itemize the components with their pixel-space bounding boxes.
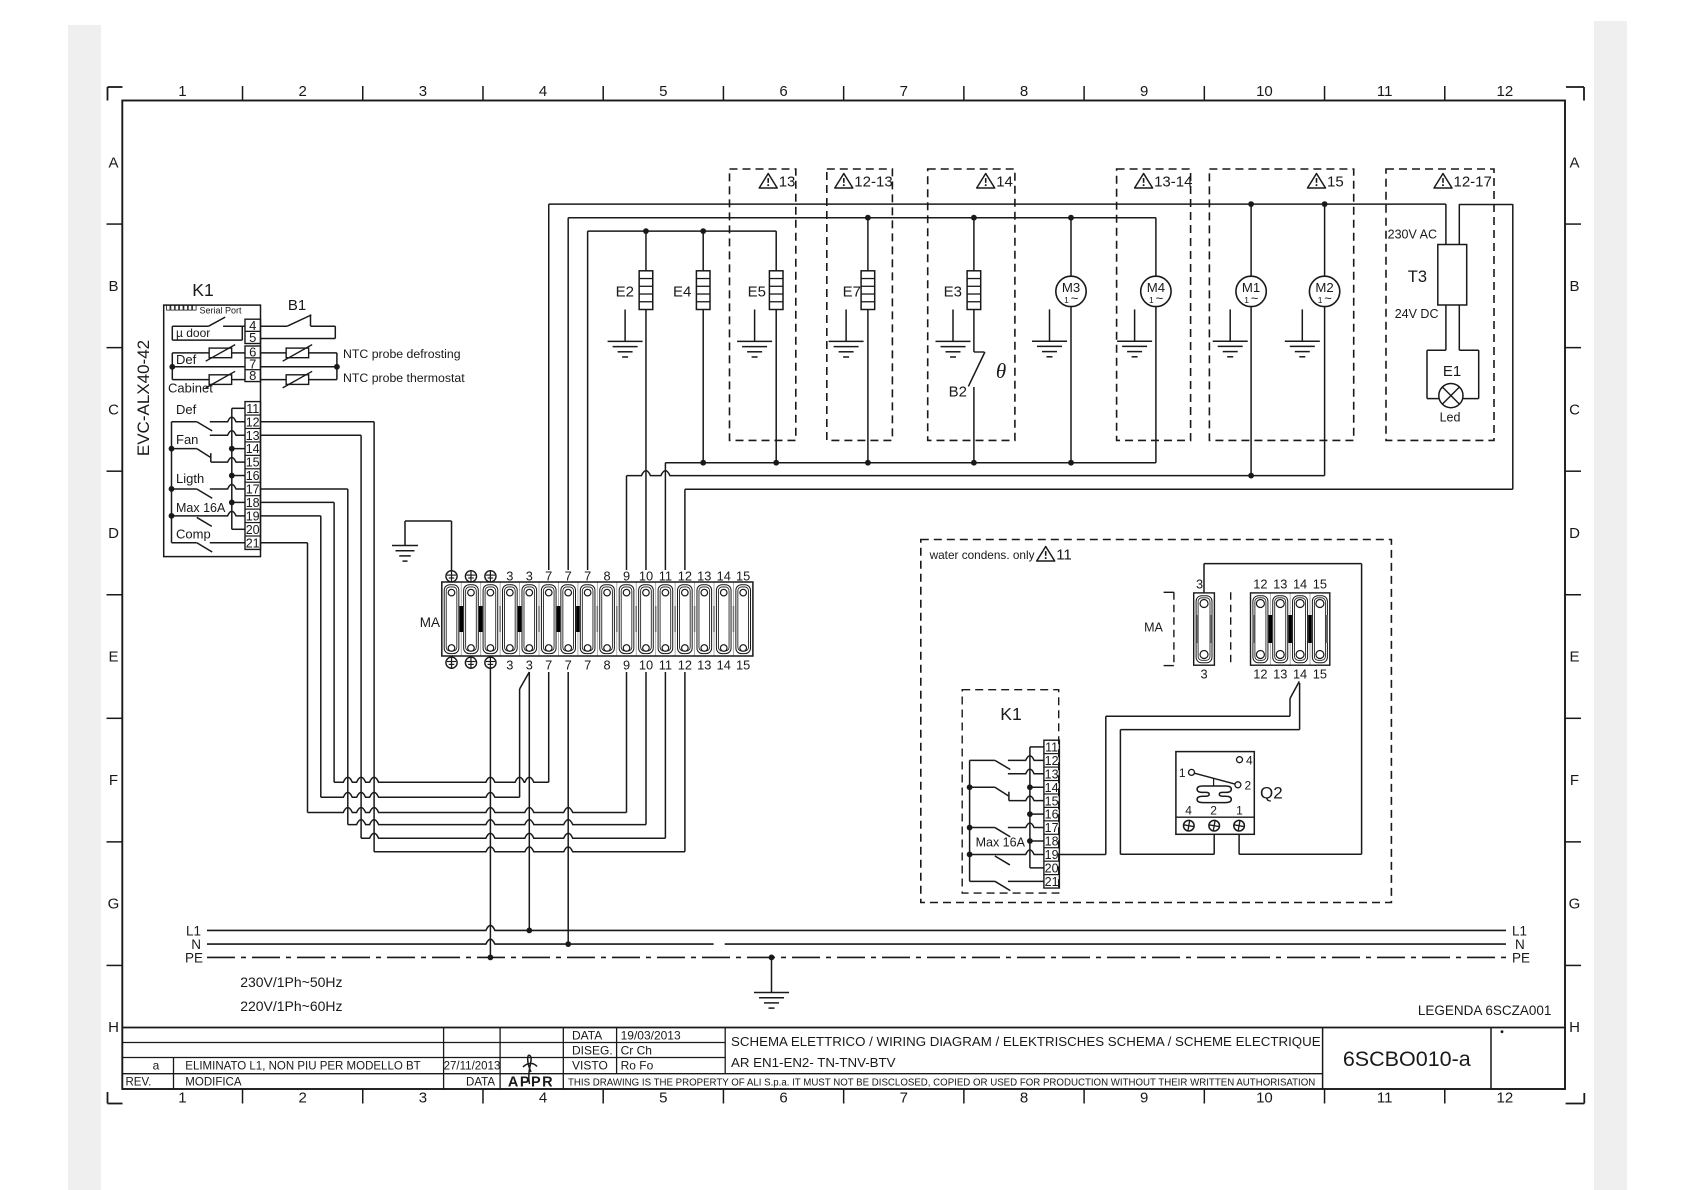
svg-text:E3: E3 [944,284,962,301]
svg-text:6: 6 [779,1090,787,1107]
svg-text:7: 7 [545,658,552,673]
svg-text:2: 2 [298,83,306,100]
svg-text:1: 1 [1149,295,1154,305]
svg-text:27/11/2013: 27/11/2013 [444,1061,501,1073]
svg-text:µ door: µ door [176,326,210,340]
svg-text:9: 9 [623,569,630,584]
svg-text:20: 20 [246,523,260,537]
svg-text:B2: B2 [949,384,967,401]
svg-text:2: 2 [1210,804,1217,818]
svg-text:15: 15 [736,569,750,584]
svg-text:11: 11 [1377,83,1393,100]
svg-text:15: 15 [1327,174,1344,191]
svg-text:8: 8 [604,569,611,584]
svg-text:9: 9 [1140,1090,1148,1107]
svg-text:11: 11 [659,569,672,584]
svg-text:14: 14 [1045,781,1059,795]
svg-text:H: H [108,1019,119,1036]
svg-text:12: 12 [1497,1090,1514,1107]
svg-text:DATA: DATA [572,1029,602,1043]
svg-text:1: 1 [1064,295,1069,305]
svg-text:2: 2 [1245,779,1252,793]
svg-text:19/03/2013: 19/03/2013 [621,1029,681,1043]
svg-text:THIS DRAWING IS THE PROPERTY O: THIS DRAWING IS THE PROPERTY OF ALI S.p.… [568,1078,1315,1089]
svg-text:13: 13 [1273,577,1287,592]
svg-text:230V/1Ph~50Hz: 230V/1Ph~50Hz [240,974,342,990]
svg-text:15: 15 [736,658,750,673]
svg-text:3: 3 [506,569,513,584]
svg-text:12: 12 [246,415,260,429]
svg-text:Max 16A: Max 16A [176,501,226,515]
svg-text:18: 18 [246,496,260,510]
svg-text:19: 19 [246,509,260,523]
svg-text:7: 7 [900,83,908,100]
svg-text:F: F [1570,772,1579,789]
svg-text:E5: E5 [748,284,766,301]
svg-text:15: 15 [246,456,260,470]
svg-text:Serial Port: Serial Port [200,306,243,316]
svg-text:3: 3 [526,569,533,584]
svg-text:3: 3 [526,658,533,673]
svg-text:MA: MA [1144,621,1163,635]
svg-text:14: 14 [1293,667,1307,682]
svg-text:C: C [1569,401,1580,418]
svg-text:A: A [108,154,118,171]
svg-text:12: 12 [1253,577,1267,592]
svg-text:1: 1 [1318,295,1323,305]
svg-text:4: 4 [1185,804,1192,818]
svg-text:EVC-ALX40-42: EVC-ALX40-42 [134,340,153,456]
svg-text:SCHEMA ELETTRICO / WIRING DIAG: SCHEMA ELETTRICO / WIRING DIAGRAM / ELEK… [731,1034,1321,1049]
svg-text:Comp: Comp [176,527,211,542]
svg-text:16: 16 [1045,808,1059,822]
svg-text:12: 12 [1497,83,1514,100]
svg-text:1: 1 [178,1090,186,1107]
svg-text:~: ~ [1324,290,1332,305]
svg-text:4: 4 [539,1090,547,1107]
svg-text:6SCBO010-a: 6SCBO010-a [1343,1047,1471,1071]
svg-text:Fan: Fan [176,432,198,447]
svg-text:ELIMINATO L1, NON PIU PER MODE: ELIMINATO L1, NON PIU PER MODELLO BT [185,1061,420,1073]
svg-text:θ: θ [996,359,1006,383]
svg-text:8: 8 [1020,83,1028,100]
svg-text:7: 7 [545,569,552,584]
svg-text:MA: MA [420,615,440,630]
svg-text:4: 4 [1246,754,1253,768]
svg-text:E1: E1 [1443,363,1461,380]
svg-text:10: 10 [639,658,653,673]
svg-text:14: 14 [717,658,731,673]
svg-text:7: 7 [565,569,572,584]
svg-text:9: 9 [1140,83,1148,100]
svg-text:K1: K1 [192,280,213,300]
svg-text:3: 3 [419,1090,427,1107]
svg-text:VISTO: VISTO [572,1059,608,1073]
svg-text:15: 15 [1313,577,1327,592]
svg-text:REV.: REV. [126,1077,152,1089]
svg-text:10: 10 [1256,1090,1273,1107]
svg-text:11: 11 [1056,547,1072,564]
svg-text:10: 10 [639,569,653,584]
svg-text:D: D [1569,525,1580,542]
svg-text:3: 3 [419,83,427,100]
svg-text:13: 13 [697,569,711,584]
svg-text:13: 13 [779,174,796,191]
svg-text:1: 1 [178,83,186,100]
svg-text:E: E [1569,649,1579,666]
svg-text:13: 13 [1273,667,1287,682]
svg-text:7: 7 [900,1090,908,1107]
svg-text:5: 5 [249,330,256,345]
svg-text:8: 8 [1020,1090,1028,1107]
svg-text:20: 20 [1045,861,1059,875]
svg-text:PE: PE [185,951,203,966]
svg-text:13: 13 [246,429,260,443]
svg-text:AR EN1-EN2- TN-TNV-BTV: AR EN1-EN2- TN-TNV-BTV [731,1055,896,1070]
svg-text:19: 19 [1045,848,1059,862]
svg-text:10: 10 [1256,83,1273,100]
svg-text:G: G [1569,896,1581,913]
svg-text:230V AC: 230V AC [1388,228,1437,242]
svg-text:DISEG.: DISEG. [572,1044,613,1058]
svg-text:14: 14 [1293,577,1307,592]
svg-text:12-17: 12-17 [1454,174,1492,191]
svg-text:water condens. only: water condens. only [929,548,1035,562]
svg-text:~: ~ [1071,290,1079,305]
svg-text:14: 14 [717,569,731,584]
svg-text:Def: Def [176,402,197,417]
svg-text:220V/1Ph~60Hz: 220V/1Ph~60Hz [240,998,342,1014]
svg-text:17: 17 [1045,821,1059,835]
svg-text:DATA: DATA [466,1077,495,1089]
svg-text:11: 11 [1377,1090,1393,1107]
svg-text:12-13: 12-13 [854,174,892,191]
svg-text:E2: E2 [616,284,634,301]
svg-text:C: C [108,401,119,418]
svg-text:E4: E4 [673,284,691,301]
svg-text:A: A [1569,154,1579,171]
svg-text:21: 21 [246,536,260,550]
svg-text:7: 7 [584,658,591,673]
svg-text:2: 2 [298,1090,306,1107]
svg-text:1: 1 [1244,295,1249,305]
svg-text:Q2: Q2 [1260,784,1283,803]
svg-text:5: 5 [659,83,667,100]
svg-text:24V DC: 24V DC [1395,307,1439,321]
svg-text:MODIFICA: MODIFICA [185,1077,242,1089]
svg-text:NTC probe thermostat: NTC probe thermostat [343,371,465,385]
svg-text:G: G [108,896,120,913]
svg-text:14: 14 [996,174,1013,191]
svg-text:12: 12 [678,658,692,673]
svg-text:18: 18 [1045,835,1059,849]
svg-text:12: 12 [678,569,692,584]
svg-text:3: 3 [1200,667,1207,682]
svg-text:Cabinet: Cabinet [168,381,213,396]
svg-text:16: 16 [246,469,260,483]
svg-text:Ro Fo: Ro Fo [621,1059,654,1073]
svg-text:a: a [153,1059,160,1073]
svg-text:Def: Def [176,352,197,367]
svg-text:7: 7 [565,658,572,673]
svg-text:E: E [108,649,118,666]
svg-text:15: 15 [1313,667,1327,682]
svg-text:21: 21 [1045,875,1059,889]
svg-text:T3: T3 [1408,268,1427,286]
svg-text:PE: PE [1512,951,1530,966]
svg-text:E7: E7 [843,284,861,301]
svg-text:LEGENDA 6SCZA001: LEGENDA 6SCZA001 [1418,1003,1552,1018]
svg-text:~: ~ [1251,290,1259,305]
svg-text:9: 9 [623,658,630,673]
svg-text:11: 11 [246,402,259,416]
svg-text:F: F [109,772,118,789]
svg-text:Ligth: Ligth [176,471,204,486]
svg-text:17: 17 [246,483,260,497]
svg-text:7: 7 [584,569,591,584]
svg-text:12: 12 [1045,754,1059,768]
svg-text:Max 16A: Max 16A [976,836,1026,850]
svg-text:1: 1 [1236,804,1243,818]
svg-text:B1: B1 [288,297,306,314]
svg-text:1: 1 [1179,766,1186,780]
svg-text:14: 14 [246,442,260,456]
svg-text:13-14: 13-14 [1154,174,1192,191]
svg-text:8: 8 [604,658,611,673]
svg-text:D: D [108,525,119,542]
svg-text:4: 4 [539,83,547,100]
svg-text:APPR: APPR [508,1075,554,1091]
svg-text:13: 13 [1045,767,1059,781]
svg-text:3: 3 [1196,577,1203,592]
svg-text:13: 13 [697,658,711,673]
svg-text:11: 11 [1045,741,1058,755]
svg-text:~: ~ [1156,290,1164,305]
svg-text:Cr Ch: Cr Ch [621,1044,652,1058]
svg-text:NTC probe defrosting: NTC probe defrosting [343,347,461,361]
svg-text:H: H [1569,1019,1580,1036]
svg-text:K1: K1 [1000,704,1021,724]
svg-text:Led: Led [1440,411,1461,425]
svg-text:B: B [108,278,118,295]
svg-text:5: 5 [659,1090,667,1107]
svg-text:8: 8 [249,368,256,383]
svg-text:3: 3 [506,658,513,673]
svg-text:B: B [1569,278,1579,295]
svg-text:11: 11 [659,658,672,673]
svg-text:15: 15 [1045,794,1059,808]
svg-text:6: 6 [779,83,787,100]
svg-text:12: 12 [1253,667,1267,682]
